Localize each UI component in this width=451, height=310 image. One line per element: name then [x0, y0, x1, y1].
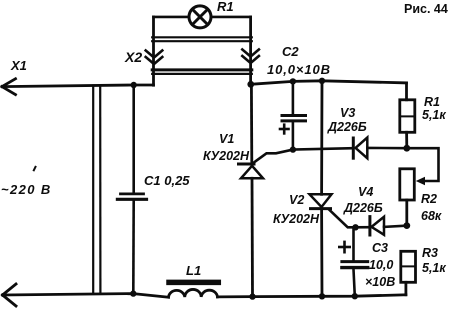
node lower C1 junction [130, 290, 136, 296]
node C3 lower junction [352, 293, 358, 299]
connector X1 upper arrow [2, 79, 16, 95]
thyristor V2 [310, 81, 332, 296]
svg-text:C2: C2 [282, 44, 299, 59]
svg-text:Д226Б: Д226Б [343, 201, 383, 215]
wire connector right vertical [249, 17, 252, 84]
svg-text:R3: R3 [422, 246, 438, 260]
svg-text:V2: V2 [289, 193, 304, 207]
wire mains lower [3, 294, 169, 298]
wire mains upper [2, 85, 154, 87]
wire lower bus [218, 295, 406, 297]
node V2 anode junction [319, 78, 325, 84]
resistor R3 [401, 251, 416, 294]
svg-text:10,0×10В: 10,0×10В [267, 62, 331, 77]
svg-text:Рис. 44: Рис. 44 [404, 2, 448, 16]
svg-text:V4: V4 [358, 185, 373, 199]
resistor R1 [400, 83, 415, 148]
wire lamp left [154, 16, 190, 19]
svg-text:КУ202Н: КУ202Н [203, 149, 250, 163]
svg-text:С1 0,25: С1 0,25 [144, 173, 190, 188]
node V1 cathode junction [249, 293, 255, 299]
inductor L1 [169, 282, 219, 297]
node C2 bottom junction [290, 146, 296, 152]
svg-text:×10В: ×10В [365, 275, 395, 289]
svg-text:Д226Б: Д226Б [327, 120, 367, 134]
capacitor C2 [280, 81, 306, 149]
wire V2 gate [330, 210, 356, 227]
node C2 top junction [290, 78, 296, 84]
svg-text:R1: R1 [424, 95, 440, 109]
wire gate node to V3 [293, 148, 352, 149]
svg-text:С3: С3 [372, 241, 388, 255]
resistor R2 [400, 148, 439, 225]
connector X2 upper bar pair [152, 37, 252, 41]
node X2 right pin junction [247, 81, 254, 88]
svg-text:КУ202Н: КУ202Н [273, 212, 320, 226]
wire upper bus [251, 81, 407, 85]
lamp R1 [189, 6, 211, 28]
svg-text:5,1к: 5,1к [422, 261, 446, 275]
svg-text:R2: R2 [421, 192, 437, 206]
node upper mains junction [131, 82, 137, 88]
diode V3 [353, 138, 407, 159]
svg-text:L1: L1 [186, 263, 201, 278]
svg-text:5,1к: 5,1к [422, 108, 446, 122]
capacitor C1 [117, 85, 146, 294]
node V2 cathode junction [319, 293, 325, 299]
svg-text:V1: V1 [219, 132, 234, 146]
svg-text:10,0: 10,0 [369, 258, 393, 272]
svg-text:X1: X1 [10, 58, 27, 73]
wire lamp right [211, 16, 251, 19]
tick mark [34, 167, 36, 171]
node R1 bottom junction [403, 145, 410, 152]
wire connector left vertical [152, 17, 155, 85]
svg-text:R1: R1 [217, 0, 234, 14]
connector X1 lower arrow [3, 284, 17, 306]
thyristor V1 [239, 84, 264, 296]
wire double cord line b [99, 86, 101, 294]
connector X2 left pin chevrons [146, 51, 163, 65]
node R2 bottom junction [403, 222, 410, 229]
svg-text:~220 В: ~220 В [1, 182, 52, 197]
svg-text:68к: 68к [421, 209, 442, 223]
wire V1 gate [253, 150, 293, 164]
diode V4 [356, 217, 407, 235]
svg-text:V3: V3 [340, 106, 355, 120]
capacitor C3 [339, 227, 367, 296]
wire double cord line a [92, 86, 94, 294]
connector X2 lower bar pair [152, 70, 252, 74]
svg-text:X2: X2 [124, 49, 142, 65]
node V2 gate junction [352, 224, 358, 230]
connector X2 right pin chevrons [242, 50, 259, 64]
